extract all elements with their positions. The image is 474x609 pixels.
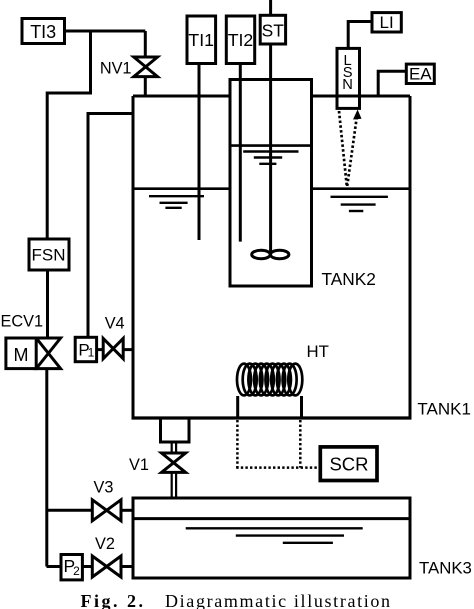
wire branch to P2 [47, 565, 62, 568]
wire left sense line: down from TI3 wire, jog left, down to FSN [47, 31, 90, 239]
svg-text:EA: EA [409, 65, 432, 84]
pipe double line V1 to TANK3 [172, 472, 176, 498]
wire LI to LSN [348, 22, 372, 49]
tank TANK1 outline [132, 96, 412, 418]
instrument P2 [61, 555, 82, 580]
instrument EA [406, 64, 434, 83]
controller SCR [320, 447, 377, 481]
liquid surface TANK3 [186, 528, 363, 543]
wire NV1 riser upper [144, 31, 147, 57]
valve V3 [92, 500, 121, 521]
svg-text:V4: V4 [105, 315, 125, 333]
tank TANK2 outline [230, 80, 312, 287]
svg-text:Diagrammatic illustration: Diagrammatic illustration [165, 591, 392, 609]
wire EA to TANK1 top [378, 71, 406, 96]
instrument TI1 [187, 16, 216, 64]
ultrasonic beam dotted right ray [347, 117, 357, 186]
svg-text:TI1: TI1 [188, 30, 214, 50]
instrument P1 [75, 337, 96, 361]
wire P2 to V2 [82, 565, 92, 568]
tank TANK3 [133, 498, 410, 578]
valve V2 [92, 556, 121, 577]
valve ECV1 body [36, 338, 60, 369]
instrument LI [372, 13, 401, 32]
liquid surface TANK2 [230, 146, 312, 164]
wire dotted horizontal to SCR [236, 466, 320, 469]
drain nozzle under TANK1 [161, 418, 190, 442]
valve ECV1 motor box M [6, 338, 36, 369]
svg-text:M: M [14, 345, 29, 365]
wire V4 to TANK1 [123, 348, 133, 351]
liquid surface left chamber of TANK1 [133, 189, 230, 208]
wire FSN to ECV1 [46, 270, 49, 338]
svg-text:TANK3: TANK3 [419, 559, 472, 578]
svg-text:ST: ST [262, 21, 285, 41]
stirrer shaft into TANK2 [269, 44, 272, 255]
svg-text:V3: V3 [94, 479, 114, 497]
valve V1 [162, 453, 186, 472]
heater HT coil [237, 364, 302, 396]
svg-text:TANK2: TANK2 [322, 269, 376, 289]
svg-text:NV1: NV1 [100, 60, 132, 78]
wire NV1 to TANK1 top [144, 77, 147, 96]
svg-text:V2: V2 [95, 535, 115, 553]
svg-text:ECV1: ECV1 [1, 313, 44, 331]
ultrasonic beam arrowhead [353, 110, 362, 120]
svg-text:TI3: TI3 [30, 22, 56, 42]
wire ECV1 down to V3/V2 branch [45, 369, 48, 567]
svg-text:LI: LI [380, 13, 394, 32]
valve NV1 [134, 57, 158, 77]
probe TI1 into TANK1 [198, 64, 201, 241]
wire dotted heater left leg to SCR [236, 420, 239, 468]
wire TANK1 wall to sample line [88, 114, 133, 338]
instrument TI3 [22, 19, 65, 44]
stirrer shaft top [269, 0, 272, 15]
svg-text:TI2: TI2 [228, 30, 254, 50]
wire dotted heater right leg down [299, 420, 302, 468]
liquid surface right chamber of TANK1 [312, 189, 411, 211]
valve V4 [103, 338, 123, 358]
svg-text:2: 2 [73, 564, 80, 578]
heater legs [238, 396, 302, 418]
ultrasonic beam dotted left ray [339, 111, 347, 186]
wire TI3 to NV1 riser [65, 30, 146, 33]
wire V3 to TANK3 [121, 509, 133, 512]
instrument FSN [29, 239, 69, 270]
svg-text:V1: V1 [129, 456, 149, 474]
pipe double line nozzle to V1 [172, 442, 176, 453]
svg-text:1: 1 [88, 346, 95, 360]
svg-text:TANK1: TANK1 [417, 400, 471, 419]
instrument TI2 [226, 16, 254, 64]
stirrer propeller [252, 250, 289, 258]
wire P1 to V4 [97, 348, 104, 351]
svg-text:Fig. 2.: Fig. 2. [81, 591, 146, 609]
wire V2 to TANK3 [121, 565, 133, 568]
svg-text:N: N [342, 77, 353, 93]
instrument ST [260, 15, 285, 44]
probe TI2 into TANK2 [239, 64, 242, 242]
svg-text:SCR: SCR [329, 453, 368, 474]
svg-text:FSN: FSN [32, 246, 66, 265]
sensor LSN [337, 48, 360, 108]
svg-text:HT: HT [307, 342, 329, 361]
wire branch to V3 [47, 509, 93, 512]
